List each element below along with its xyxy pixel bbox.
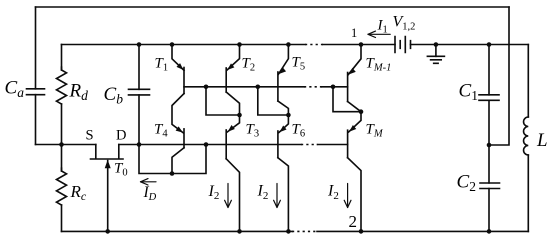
svg-text:2: 2: [349, 212, 358, 231]
svg-text:D: D: [116, 128, 126, 144]
svg-text:1: 1: [351, 26, 357, 40]
svg-text:L: L: [536, 130, 548, 151]
svg-text:S: S: [86, 128, 94, 144]
